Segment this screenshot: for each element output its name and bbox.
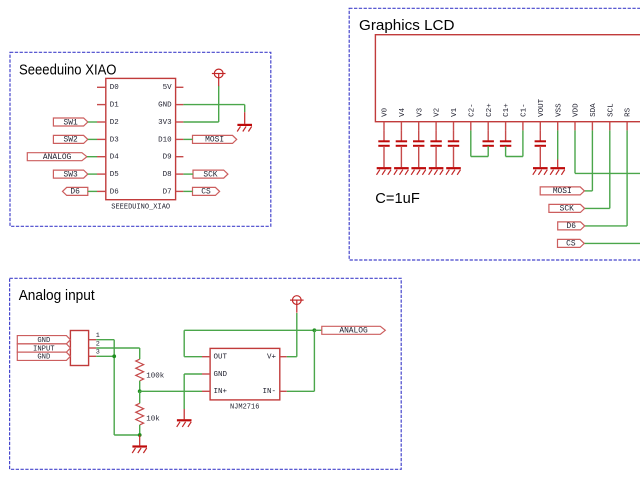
svg-text:D7: D7 [163, 188, 172, 196]
svg-text:GND: GND [37, 354, 50, 362]
svg-text:C2+: C2+ [486, 103, 494, 117]
svg-text:D10: D10 [158, 136, 172, 144]
svg-text:SCK: SCK [203, 170, 217, 179]
svg-text:MOSI: MOSI [205, 136, 224, 145]
svg-text:SW1: SW1 [63, 118, 77, 127]
svg-text:V0: V0 [382, 107, 390, 117]
svg-text:IN-: IN- [262, 388, 276, 396]
svg-text:MOSI: MOSI [553, 187, 572, 196]
svg-text:VOUT: VOUT [538, 98, 546, 117]
svg-text:C=1uF: C=1uF [375, 191, 420, 207]
svg-text:D5: D5 [110, 171, 120, 179]
svg-text:CS: CS [566, 240, 576, 249]
svg-text:SCK: SCK [560, 205, 574, 214]
svg-text:SW2: SW2 [63, 136, 77, 145]
svg-text:D3: D3 [110, 136, 120, 144]
svg-text:1: 1 [96, 332, 100, 340]
svg-text:OUT: OUT [214, 354, 228, 362]
svg-text:SCL: SCL [607, 103, 615, 117]
svg-text:C1+: C1+ [503, 103, 511, 117]
svg-text:10k: 10k [146, 415, 160, 423]
svg-text:Graphics LCD: Graphics LCD [359, 18, 455, 34]
svg-text:GND: GND [214, 371, 228, 379]
svg-text:D6: D6 [110, 188, 120, 196]
svg-text:ANALOG: ANALOG [43, 153, 72, 162]
svg-text:D2: D2 [110, 119, 119, 127]
svg-text:D6: D6 [70, 188, 80, 197]
svg-text:V2: V2 [434, 108, 442, 117]
svg-text:3V3: 3V3 [158, 119, 172, 127]
svg-text:D4: D4 [110, 154, 120, 162]
svg-text:GND: GND [158, 102, 172, 110]
svg-text:C2-: C2- [468, 103, 476, 117]
svg-text:IN+: IN+ [214, 388, 228, 396]
svg-text:NJM2716: NJM2716 [230, 404, 259, 412]
svg-text:SEEEDUINO_XIAO: SEEEDUINO_XIAO [111, 203, 170, 211]
svg-text:Seeeduino XIAO: Seeeduino XIAO [19, 62, 117, 78]
svg-text:V+: V+ [267, 354, 277, 362]
svg-text:V4: V4 [399, 107, 407, 117]
svg-text:D1: D1 [110, 102, 120, 110]
svg-text:D8: D8 [163, 171, 172, 179]
svg-text:5V: 5V [163, 84, 173, 92]
svg-text:VSS: VSS [555, 103, 563, 117]
svg-text:VDD: VDD [573, 103, 581, 117]
svg-text:3: 3 [96, 349, 100, 357]
svg-text:V1: V1 [451, 107, 459, 117]
svg-text:SDA: SDA [590, 103, 598, 117]
svg-text:D6: D6 [566, 222, 576, 231]
svg-text:ANALOG: ANALOG [339, 327, 368, 336]
svg-text:Analog input: Analog input [19, 288, 95, 304]
svg-text:2: 2 [96, 340, 100, 348]
svg-text:C1-: C1- [521, 103, 529, 117]
svg-text:100k: 100k [146, 373, 165, 381]
svg-text:D9: D9 [163, 154, 172, 162]
svg-text:CS: CS [201, 188, 211, 197]
svg-text:D0: D0 [110, 84, 120, 92]
svg-text:V3: V3 [416, 107, 424, 117]
svg-text:SW3: SW3 [63, 170, 77, 179]
svg-text:RS: RS [625, 107, 633, 117]
